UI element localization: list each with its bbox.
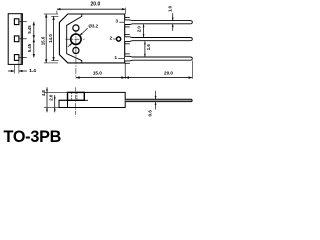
dimension 5.45 upper bbox=[33, 22, 35, 39]
lead 1 cross-section bbox=[14, 55, 19, 61]
dimension 20.0 body width extension lines bbox=[56, 11, 58, 14]
svg-text:4.8: 4.8 bbox=[41, 90, 46, 97]
dimension 15.6 bbox=[45, 14, 47, 63]
dimension 4.8 bbox=[46, 87, 48, 112]
top view body outline bbox=[68, 92, 126, 107]
svg-text:5.45: 5.45 bbox=[27, 43, 32, 52]
svg-text:0.6: 0.6 bbox=[148, 110, 153, 117]
lead pin 2 shoulder lines bbox=[125, 33, 130, 35]
lead 1 center tick bbox=[19, 57, 27, 59]
dimension 20.0 body width bbox=[57, 8, 126, 10]
dimension 14.0 extension ticks bbox=[51, 15, 58, 17]
dimension 2.0 lead gap bbox=[143, 24, 145, 37]
hole leader second arrow bbox=[69, 43, 72, 46]
svg-text:1.6: 1.6 bbox=[146, 44, 151, 51]
svg-text:3: 3 bbox=[115, 19, 118, 25]
front view inner profile bbox=[67, 14, 82, 63]
svg-text:2.0: 2.0 bbox=[49, 94, 54, 101]
dimension bottom extension tick bbox=[44, 107, 59, 109]
body edge extension line bbox=[124, 64, 126, 79]
svg-text:TO-3PB: TO-3PB bbox=[4, 128, 62, 143]
lead pin 1 bbox=[125, 56, 192, 61]
svg-text:15.0: 15.0 bbox=[93, 71, 102, 76]
hole centerline extension bbox=[75, 48, 77, 79]
lead pin 2 bbox=[125, 37, 192, 42]
svg-text:5.45: 5.45 bbox=[27, 25, 32, 34]
mounting hole bbox=[71, 34, 81, 44]
hole vertical centerline bbox=[75, 30, 77, 48]
top view step line bbox=[59, 99, 88, 101]
svg-text:Ø3.2: Ø3.2 bbox=[88, 24, 98, 29]
dimension 20.0 lead length bbox=[125, 77, 192, 79]
dimension 1.4 extension lines bbox=[13, 64, 15, 73]
svg-text:20.0: 20.0 bbox=[91, 2, 101, 8]
pin 2 tab marker circle bbox=[117, 37, 121, 41]
lead 3 center tick bbox=[19, 21, 27, 23]
lead 2 cross-section bbox=[14, 36, 19, 42]
dimension 15.0 bbox=[76, 77, 125, 79]
lead 3 cross-section bbox=[14, 19, 19, 25]
lead pin 3 shoulder lines bbox=[125, 17, 130, 19]
svg-text:2: 2 bbox=[110, 36, 113, 42]
dimension 5.45 lower bbox=[33, 39, 35, 58]
top view lead bbox=[125, 99, 192, 102]
dimension 1.6 lead gap bbox=[144, 41, 146, 57]
svg-text:1: 1 bbox=[114, 55, 117, 61]
svg-text:14.0: 14.0 bbox=[48, 34, 53, 43]
lower small hole bbox=[73, 47, 79, 53]
hole horizontal centerline bbox=[66, 38, 85, 40]
svg-text:20.0: 20.0 bbox=[164, 71, 173, 76]
dimension 1.4 bbox=[8, 70, 14, 72]
lead pin 1 shoulder lines bbox=[125, 53, 130, 55]
dimension 1.0 lead thickness bbox=[172, 13, 174, 20]
hole leader line bbox=[80, 28, 88, 35]
lead 2 center tick bbox=[19, 38, 27, 40]
dimension 15.6 extension ticks bbox=[44, 13, 58, 15]
top view mounting boss bbox=[68, 92, 85, 100]
dimension 14.0 bbox=[53, 16, 55, 60]
side view tab inner edge bbox=[20, 14, 22, 65]
svg-text:2.0: 2.0 bbox=[137, 26, 142, 33]
lead pin 3 bbox=[125, 20, 192, 25]
svg-text:1.0: 1.0 bbox=[167, 5, 172, 12]
dimension 0.6 lead thickness bbox=[155, 91, 157, 99]
top view centerline bbox=[74, 87, 76, 116]
hidden hole dashed lines bbox=[71, 92, 73, 100]
dimension 2.0 thickness bbox=[54, 95, 56, 112]
svg-text:1.4: 1.4 bbox=[29, 68, 36, 74]
svg-text:15.6: 15.6 bbox=[40, 36, 45, 45]
top view tab extension bbox=[59, 100, 68, 107]
dimension 4.8 extension tick bbox=[44, 91, 68, 93]
lead tip extension line bbox=[191, 61, 193, 79]
side view body outline bbox=[8, 14, 22, 65]
upper small hole bbox=[73, 25, 79, 31]
front view body outline bbox=[59, 14, 124, 63]
